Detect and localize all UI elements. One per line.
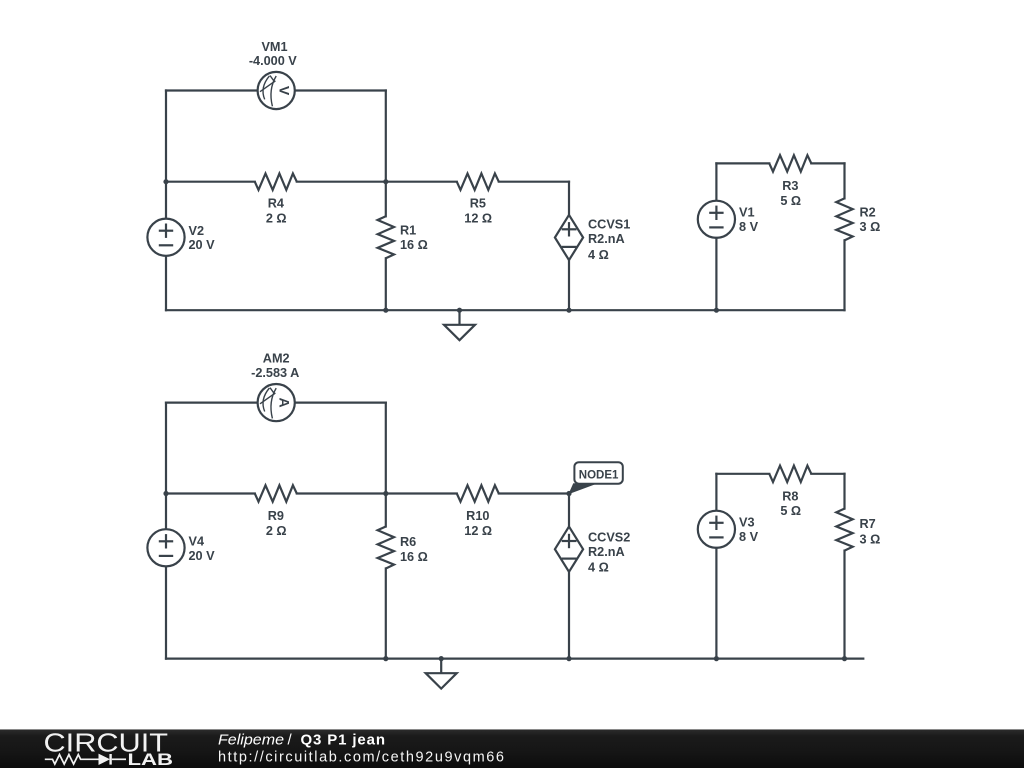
svg-text:V2: V2 bbox=[189, 224, 205, 238]
svg-text:CCVS1: CCVS1 bbox=[588, 217, 630, 231]
resistor R6 bbox=[378, 494, 428, 659]
svg-text:-4.000 V: -4.000 V bbox=[249, 54, 297, 68]
wire left vertical upper (V4) bbox=[165, 403, 167, 530]
footer bar bbox=[0, 729, 1024, 768]
svg-text:CCVS2: CCVS2 bbox=[588, 530, 630, 544]
junction mid2 / R6 top bbox=[383, 491, 388, 496]
junction R1 bottom bbox=[383, 308, 388, 313]
junction V1 bottom bbox=[714, 308, 719, 313]
resistor R8 bbox=[769, 466, 811, 519]
node junction at mid-left bbox=[163, 179, 168, 184]
node NODE1 flag bbox=[569, 462, 623, 493]
svg-text:20 V: 20 V bbox=[189, 238, 216, 252]
svg-text:2 Ω: 2 Ω bbox=[266, 211, 287, 225]
wire mid right segment to CCVS1 corner bbox=[499, 181, 569, 183]
svg-text:V4: V4 bbox=[189, 535, 205, 549]
svg-text:-2.583 A: -2.583 A bbox=[251, 366, 299, 380]
svg-text:5 Ω: 5 Ω bbox=[780, 194, 801, 208]
svg-text:R6: R6 bbox=[400, 535, 416, 549]
ammeter AM2 bbox=[251, 352, 299, 422]
resistor R5 bbox=[457, 174, 499, 226]
svg-text:Felipeme: Felipeme bbox=[218, 732, 284, 749]
svg-text:5 Ω: 5 Ω bbox=[780, 504, 801, 518]
resistor R3 bbox=[769, 155, 811, 208]
ground top circuit bbox=[444, 310, 475, 340]
voltage source V2 bbox=[147, 219, 215, 256]
wire mid2 right segment to NODE1 bbox=[499, 492, 569, 494]
wire top-left horizontal (V2 top to VM1) bbox=[166, 89, 258, 91]
wire top-right rail 2 left segment bbox=[716, 473, 769, 475]
wire bottom rail bottom circuit bbox=[166, 657, 863, 659]
junction ground top circuit bbox=[457, 308, 462, 313]
junction V3 bottom bbox=[714, 656, 719, 661]
dependent source CCVS2 bbox=[555, 527, 630, 575]
svg-text:R5: R5 bbox=[470, 197, 486, 211]
junction CCVS2 bottom bbox=[566, 656, 571, 661]
wire CCVS1 top stub bbox=[568, 182, 570, 215]
logo resistor-diode glyph bbox=[45, 754, 126, 765]
svg-text:R2.nA: R2.nA bbox=[588, 545, 625, 559]
svg-text:AM2: AM2 bbox=[263, 352, 290, 366]
voltage source V1 bbox=[698, 163, 759, 310]
wire top-right rail 2 right segment bbox=[811, 473, 844, 475]
svg-text:R3: R3 bbox=[782, 179, 798, 193]
node junction mid wire / R1 top bbox=[383, 179, 388, 184]
svg-text:2 Ω: 2 Ω bbox=[266, 524, 287, 538]
wire vertical corner down to mid wire bbox=[385, 91, 387, 182]
resistor R4 bbox=[255, 174, 297, 226]
wire CCVS1 bottom stub bbox=[568, 260, 570, 310]
resistor R10 bbox=[457, 485, 499, 538]
wire mid2 between R9 and R10 bbox=[297, 492, 457, 494]
voltage source V3 bbox=[698, 474, 759, 659]
svg-text:V: V bbox=[276, 86, 292, 96]
wire CCVS2 top stub bbox=[568, 494, 570, 527]
svg-text:V1: V1 bbox=[739, 206, 755, 220]
svg-text:R4: R4 bbox=[268, 197, 284, 211]
svg-text:Q3 P1 jean: Q3 P1 jean bbox=[301, 732, 386, 749]
resistor R9 bbox=[255, 485, 297, 538]
svg-text:4 Ω: 4 Ω bbox=[588, 560, 609, 574]
svg-text:R2: R2 bbox=[860, 205, 876, 219]
resistor R1 bbox=[378, 182, 428, 311]
dependent source CCVS1 bbox=[555, 215, 630, 262]
wire VM1 right to corner bbox=[295, 89, 386, 91]
svg-text:20 V: 20 V bbox=[189, 549, 216, 563]
wire mid2 left segment bbox=[166, 492, 255, 494]
svg-text:NODE1: NODE1 bbox=[579, 469, 619, 481]
voltmeter VM1 bbox=[249, 40, 297, 109]
wire mid left segment bbox=[166, 181, 255, 183]
junction R6 bottom bbox=[383, 656, 388, 661]
svg-text:4 Ω: 4 Ω bbox=[588, 248, 609, 262]
svg-text:R10: R10 bbox=[466, 509, 489, 523]
svg-text:8 V: 8 V bbox=[739, 530, 759, 544]
footer url text bbox=[218, 749, 504, 765]
junction mid2 left bbox=[163, 491, 168, 496]
svg-text:R2.nA: R2.nA bbox=[588, 232, 625, 246]
svg-text:R8: R8 bbox=[782, 489, 798, 503]
svg-text:VM1: VM1 bbox=[261, 40, 287, 54]
junction ground bottom circuit bbox=[439, 656, 444, 661]
wire meter-rail left (V4 top to AM2) bbox=[166, 402, 258, 404]
junction R7 bottom bbox=[842, 656, 847, 661]
svg-text:LAB: LAB bbox=[128, 751, 174, 768]
junction NODE1 dot bbox=[566, 491, 571, 496]
resistor R2 bbox=[836, 163, 880, 310]
resistor R7 bbox=[836, 474, 880, 659]
svg-text:16 Ω: 16 Ω bbox=[400, 238, 428, 252]
footer title text bbox=[218, 732, 385, 749]
svg-text:V3: V3 bbox=[739, 516, 755, 530]
wire mid between R4 and R5 bbox=[297, 181, 457, 183]
logo CIRCUIT text bbox=[44, 730, 169, 758]
wire vertical corner to mid wire 2 bbox=[385, 403, 387, 494]
wire left vertical upper (V2 to top wire) bbox=[165, 91, 167, 219]
svg-text:R7: R7 bbox=[860, 517, 876, 531]
svg-text:16 Ω: 16 Ω bbox=[400, 550, 428, 564]
wire bottom rail top circuit bbox=[166, 309, 845, 311]
svg-text:12 Ω: 12 Ω bbox=[464, 524, 492, 538]
svg-text:8 V: 8 V bbox=[739, 220, 759, 234]
wire left vertical lower (V4) bbox=[165, 566, 167, 658]
ground bottom circuit bbox=[426, 659, 457, 689]
wire top-right rail left segment bbox=[716, 162, 769, 164]
svg-text:A: A bbox=[276, 398, 292, 408]
wire top-right rail right segment bbox=[811, 162, 844, 164]
wire left vertical lower (V2 to bottom wire) bbox=[165, 256, 167, 310]
wire CCVS2 bottom stub bbox=[568, 572, 570, 659]
logo LAB text bbox=[128, 751, 174, 768]
voltage source V4 bbox=[147, 529, 215, 566]
wire AM2 right to corner bbox=[295, 402, 386, 404]
junction CCVS1 bottom bbox=[566, 308, 571, 313]
svg-text:12 Ω: 12 Ω bbox=[464, 211, 492, 225]
svg-text:3 Ω: 3 Ω bbox=[860, 220, 881, 234]
svg-text:R9: R9 bbox=[268, 509, 284, 523]
svg-text:3 Ω: 3 Ω bbox=[860, 533, 881, 547]
svg-text:R1: R1 bbox=[400, 224, 416, 238]
